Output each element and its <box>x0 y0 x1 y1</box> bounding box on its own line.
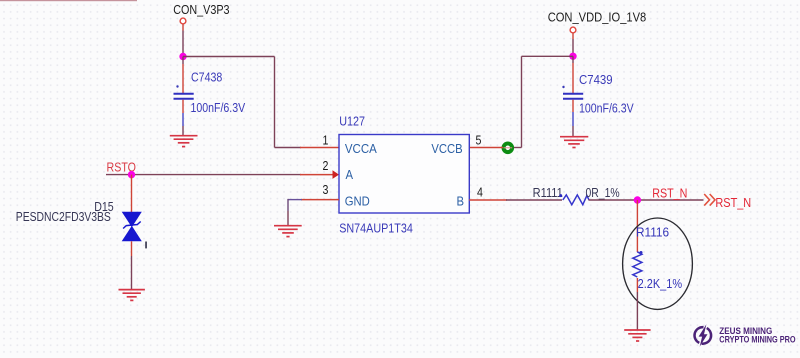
power pin CON_VDD_IO_1V8 (open circle) <box>570 27 576 33</box>
svg-text:R1116: R1116 <box>636 225 669 240</box>
pin (bottom lead) of C7438 <box>182 100 184 113</box>
ground symbol (C7439) <box>560 137 588 148</box>
wire corner down to pin 1 row <box>274 57 276 148</box>
wire CON_VDD_IO_1V8 vertical to junction <box>572 39 574 56</box>
wire C7438 to ground <box>182 126 184 135</box>
wire pin 3 to ground corner <box>288 199 302 201</box>
svg-text:CON_V3P3: CON_V3P3 <box>173 2 230 17</box>
TVS diode D15 crossbar with hooks <box>123 222 141 229</box>
capacitor C7438 dot marker <box>176 85 178 87</box>
pin (bottom lead, blue part) of C7438 <box>182 113 184 126</box>
resistor R1116 body (vertical zigzag) <box>633 252 642 277</box>
ground symbol (R1116) <box>624 330 650 341</box>
pin 1 of U127 <box>300 147 339 149</box>
power pin CON_V3P3 (open circle) <box>180 18 186 24</box>
svg-text:R1111: R1111 <box>533 185 563 200</box>
svg-text:RST_N: RST_N <box>652 186 687 201</box>
svg-text:0R_1%: 0R_1% <box>586 186 621 200</box>
capacitor C7438 plates <box>174 94 194 99</box>
wire R1116 to ground <box>636 292 638 330</box>
svg-text:SN74AUP1T34: SN74AUP1T34 <box>339 220 413 235</box>
resistor R1111 dot marker <box>559 194 562 197</box>
IC U127 body <box>339 135 469 214</box>
junction C (RSTO net) <box>128 171 135 178</box>
wire R1111 to junction D <box>589 199 704 201</box>
wire junction D down to resistor R1116 <box>636 200 638 252</box>
svg-text:5: 5 <box>476 134 482 148</box>
svg-text:C7438: C7438 <box>191 69 223 84</box>
wire down to ground (pin 3, lower) <box>287 211 289 225</box>
ground symbol (D15) <box>119 290 145 301</box>
svg-text:100nF/6.3V: 100nF/6.3V <box>579 100 634 115</box>
net tie (green donut) on pin 5 <box>504 144 513 153</box>
pin 2 of U127 with arrow <box>300 174 336 176</box>
pin stub below CON_VDD_IO_1V8 circle <box>572 33 574 39</box>
pin 3 of U127 <box>301 199 339 201</box>
svg-text:VCCA: VCCA <box>345 141 378 156</box>
svg-text:GND: GND <box>345 194 370 209</box>
wire junction B left <box>522 55 574 57</box>
svg-text:A: A <box>346 167 354 182</box>
pin (bottom lead) of C7439 <box>572 100 574 112</box>
svg-text:3: 3 <box>323 183 329 197</box>
svg-text:CON_VDD_IO_1V8: CON_VDD_IO_1V8 <box>548 10 647 25</box>
wire junction B down to capacitor C7439 <box>572 56 574 63</box>
pin 2 arrowhead <box>333 170 340 179</box>
wire junction A down to capacitor C7438 <box>182 57 184 65</box>
svg-text:VCCB: VCCB <box>431 141 462 156</box>
capacitor C7439 dot marker <box>562 86 564 88</box>
wire CON_V3P3 vertical to junction <box>182 31 184 57</box>
pin 4 of U127 <box>469 199 507 201</box>
svg-text:CRYPTO MINING PRO: CRYPTO MINING PRO <box>719 335 796 345</box>
junction A (CON_V3P3 net) <box>179 53 186 60</box>
wire RSTO horizontal <box>106 174 301 176</box>
pin (top lead) of C7439 <box>572 63 574 93</box>
wire corner to pin 1 <box>275 147 302 149</box>
ground symbol (U127 GND) <box>274 226 302 237</box>
annotation ellipse around R1116 <box>623 218 693 309</box>
svg-text:RST_N: RST_N <box>715 195 751 210</box>
junction D (RST_N net) <box>634 196 641 203</box>
logo Zeus Mining icon (circle with lightning bolt) <box>695 324 712 346</box>
wire junction C down to diode D15 <box>131 175 133 212</box>
svg-text:U127: U127 <box>339 113 365 128</box>
junction B (CON_VDD_IO_1V8 net) <box>569 53 576 60</box>
wire pin 4 to resistor R1111 <box>506 199 562 201</box>
wire junction A to corner <box>183 56 275 58</box>
resistor R1111 body (zigzag) <box>563 195 589 205</box>
pin (bottom lead) of R1116 <box>636 278 638 292</box>
ground symbol (C7438) <box>170 136 198 147</box>
svg-text:2: 2 <box>323 159 329 173</box>
pin 5 of U127 <box>469 147 503 149</box>
svg-text:100nF/6.3V: 100nF/6.3V <box>191 100 246 115</box>
pin stub below CON_V3P3 circle <box>182 24 184 30</box>
port RST_N chevrons <box>704 194 715 206</box>
resistor R1116 dot marker <box>640 251 643 254</box>
wire to pin 5 via <box>508 147 522 149</box>
wire down to pin 5 row <box>521 56 523 147</box>
capacitor C7439 plates <box>563 94 583 99</box>
wire down to ground (pin 3) <box>287 199 289 211</box>
wire D15 to ground <box>131 256 133 289</box>
svg-text:C7439: C7439 <box>579 72 613 87</box>
wire (cut-off at top edge) <box>0 0 137 1</box>
pin (bottom lead, blue part) of C7439 <box>572 112 574 126</box>
diode D15 pin label I <box>145 242 147 249</box>
svg-text:1: 1 <box>323 134 329 148</box>
svg-text:2.2K_1%: 2.2K_1% <box>638 276 683 291</box>
svg-text:B: B <box>457 194 465 209</box>
svg-text:4: 4 <box>477 186 483 200</box>
svg-text:PESDNC2FD3V3BS: PESDNC2FD3V3BS <box>16 210 111 224</box>
TVS diode D15 (bidirectional) <box>122 212 142 242</box>
pin (bottom lead) of D15 <box>131 241 133 256</box>
wire C7439 to ground <box>572 126 574 136</box>
pin (top lead) of C7438 <box>182 64 184 93</box>
